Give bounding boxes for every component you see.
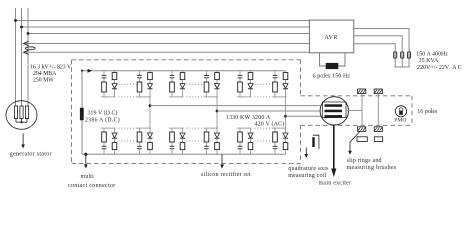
svg-text:319 V (D.C): 319 V (D.C) — [88, 110, 118, 117]
svg-text:quadrature axis: quadrature axis — [288, 166, 329, 172]
wire: generator phase bus vertical 3 — [27, 8, 29, 106]
wire: AC phase line 3 to main exciter armature — [286, 115, 326, 117]
wire: DC positive bus (top) — [82, 70, 286, 72]
stator winding bar at x=16.0 — [14, 106, 17, 119]
wire: AC phase line 1 to main exciter armature — [150, 105, 325, 107]
PMG (permanent magnet generator) circle — [395, 106, 406, 117]
node: junction phase 2 — [20, 26, 23, 29]
svg-text:silicon rectifier set: silicon rectifier set — [201, 171, 251, 178]
svg-text:measuring coil: measuring coil — [288, 173, 326, 179]
rectifier cell top row #6: RC snubber + fused diode — [272, 71, 288, 97]
arrow on DC bus — [88, 69, 93, 73]
dashed enclosure: shaft tunnel bottom — [301, 124, 413, 126]
arrowhead on upper measuring tap — [24, 41, 29, 45]
PMG magnet symbol — [399, 108, 403, 112]
AVR regulator box — [309, 20, 353, 53]
svg-text:35 KVA: 35 KVA — [419, 58, 439, 64]
svg-text:measuring brushes: measuring brushes — [347, 165, 397, 171]
node: junction phase 1 — [14, 19, 17, 22]
slip ring / brush (bottom right) — [374, 127, 382, 132]
svg-text:main exciter: main exciter — [319, 181, 352, 187]
svg-text:contact connector: contact connector — [68, 183, 116, 189]
node: DC bus corner — [81, 70, 83, 72]
fuse F1 — [407, 52, 410, 58]
svg-text:multi: multi — [81, 174, 95, 180]
main exciter field pole (solid) — [326, 63, 339, 69]
dashed enclosure: shaft tunnel right edge — [411, 96, 413, 126]
node: multi contact connector junction — [84, 153, 87, 156]
dotted parallel-cells link arm 1 bottom row — [119, 127, 137, 129]
wire: bridge arm 1 vertical — [149, 97, 151, 128]
current transformer loop on phase bus — [25, 47, 35, 50]
rectifier cell top row #3: RC snubber + fused diode — [169, 71, 185, 97]
measuring brush holder left — [357, 137, 367, 142]
slip ring / brush (top left) — [358, 89, 366, 94]
dashed enclosure: rotating rectifier box top edge — [72, 59, 301, 61]
wire: fuse F2 to PMG bar — [401, 58, 403, 67]
wire: PMG common bar — [394, 66, 410, 68]
rectifier cell bottom row #3: RC snubber + fused diode — [169, 128, 185, 154]
shunt / field lead bar — [80, 108, 84, 120]
annotation arrow: quadrature axis measuring coil — [305, 148, 307, 156]
wire: PMG feed line 1 — [354, 29, 409, 52]
generator stator winding symbol — [6, 101, 37, 130]
fuse F2 — [401, 52, 404, 58]
rectifier cell top row #1: RC snubber + fused diode — [101, 71, 117, 97]
dotted parallel-cells link arm 3 top row — [255, 83, 273, 85]
svg-text:AVR: AVR — [325, 35, 338, 41]
main exciter field winding (6 poles) leads — [320, 53, 326, 66]
wire: PMG feed line 3 — [354, 44, 395, 52]
svg-text:2386 A (D.C): 2386 A (D.C) — [85, 116, 120, 123]
annotation leader: slip rings — [350, 132, 360, 152]
wire: generator phase bus vertical 2 — [21, 8, 23, 106]
wire: bridge arm 3 vertical — [285, 97, 287, 128]
wire: DC negative bus (bottom) — [82, 153, 286, 155]
wire: fuse F3 to PMG bar — [394, 58, 396, 67]
slip ring / brush (top right) — [374, 89, 382, 94]
wire: stator star point — [16, 121, 27, 123]
rectifier cell bottom row #1: RC snubber + fused diode — [101, 128, 117, 154]
dashed enclosure: left edge — [71, 60, 73, 164]
armature winding bar 3 — [325, 115, 343, 118]
measuring brush holder right — [374, 137, 382, 142]
annotation arrow: main exciter (thick) — [333, 125, 335, 170]
arrowhead on lower measuring tap — [24, 50, 29, 54]
rectifier cell bottom row #6: RC snubber + fused diode — [272, 128, 288, 154]
stator winding bar at x=27.0 — [25, 106, 28, 119]
wire: slip ring lead 1 — [361, 94, 363, 127]
stator winding bar at x=21.5 — [20, 106, 23, 119]
node: AC phase 1 junction — [149, 104, 152, 107]
svg-text:6 poles 150 Hz: 6 poles 150 Hz — [313, 74, 351, 80]
dashed enclosure: right edge lower segment — [300, 125, 302, 163]
svg-text:generator stator: generator stator — [10, 151, 52, 157]
rectifier cell top row #5: RC snubber + fused diode — [237, 71, 253, 97]
wire: phase line 3 to AVR — [28, 33, 309, 35]
wire: phase line 1 to AVR — [16, 20, 310, 22]
node: AC phase 3 junction — [284, 115, 287, 118]
dotted parallel-cells link arm 2 top row — [187, 83, 204, 85]
svg-text:420 V (AC): 420 V (AC) — [255, 120, 285, 127]
wire: measuring tap line (CT) lower to AVR — [24, 51, 309, 53]
rectifier cell top row #4: RC snubber + fused diode — [204, 71, 220, 97]
armature winding bar 2 — [325, 110, 343, 113]
rectifier cell bottom row #4: RC snubber + fused diode — [204, 128, 220, 154]
dashed enclosure: bottom edge — [72, 162, 301, 164]
annotation arrow: silicon rectifier set — [221, 154, 223, 165]
dotted parallel-cells link arm 1 top row — [119, 83, 137, 85]
dotted parallel-cells link arm 2 bottom row — [187, 127, 204, 129]
dotted parallel-cells link arm 3 bottom row — [255, 127, 273, 129]
node: junction phase 3 — [27, 32, 30, 35]
svg-text:1330 KW 3200 A: 1330 KW 3200 A — [226, 115, 271, 121]
wire: slip ring lead 2 — [377, 94, 379, 127]
wire: measuring tap line (PT) upper to AVR — [24, 43, 309, 45]
dashed enclosure: right edge upper segment — [300, 60, 302, 96]
rectifier cell top row #2: RC snubber + fused diode — [137, 71, 153, 97]
svg-text:250 MW: 250 MW — [33, 78, 54, 84]
dashed enclosure: shaft tunnel top — [301, 95, 413, 97]
svg-text:PMO: PMO — [394, 118, 406, 124]
wire: DC left riser with shunt — [81, 71, 83, 155]
svg-text:220V+/- 22V A C: 220V+/- 22V A C — [417, 65, 462, 71]
svg-text:16.3 kV+/- 823 V: 16.3 kV+/- 823 V — [30, 65, 72, 71]
fuse F3 — [394, 52, 397, 58]
annotation arrow: multi contact connector — [85, 156, 87, 166]
quadrature axis measuring coil symbol — [312, 137, 314, 147]
svg-text:294 MBA: 294 MBA — [33, 71, 57, 77]
wire: bridge arm 2 vertical — [216, 97, 218, 128]
wire: phase line 2 to AVR — [22, 26, 310, 28]
node: AC phase 2 junction — [216, 110, 219, 113]
armature winding frame — [323, 102, 347, 118]
armature winding bar 1 — [325, 104, 343, 107]
rectifier cell bottom row #2: RC snubber + fused diode — [137, 128, 153, 154]
wire: AC phase line 2 to main exciter armature — [217, 110, 325, 112]
svg-text:16 poles: 16 poles — [417, 109, 438, 115]
wire: armature to slip ring lead — [346, 109, 362, 111]
wire: PMG feed line 2 — [354, 36, 402, 52]
svg-text:150 A 400Hz: 150 A 400Hz — [416, 51, 448, 57]
slip ring / brush (bottom left) — [358, 127, 366, 132]
wire: generator phase bus vertical 1 — [15, 8, 17, 106]
wire: fuse F1 to PMG bar — [408, 58, 410, 67]
main exciter armature circle — [320, 97, 348, 125]
svg-text:slip rings and: slip rings and — [347, 158, 382, 164]
rectifier cell bottom row #5: RC snubber + fused diode — [237, 128, 253, 154]
annotation arrow: generator stator — [22, 134, 24, 147]
